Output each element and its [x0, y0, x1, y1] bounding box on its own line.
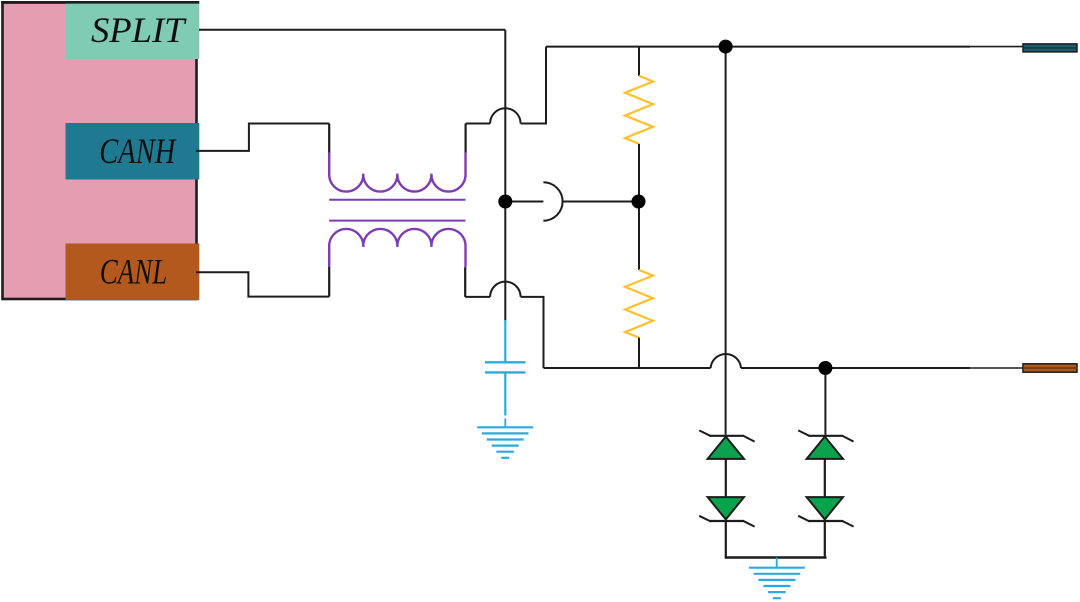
choke L1 core line lower: [329, 220, 465, 222]
wire bottom rail left segment: [544, 367, 711, 369]
block top border over SPLIT box: [1, 1, 199, 4]
junction dot bottom rail: [818, 361, 832, 375]
capacitor C1 plates: [485, 362, 526, 372]
junction dot top rail: [719, 40, 733, 54]
resistor R2 top lead: [638, 202, 640, 270]
choke L1 upper winding: [329, 153, 465, 192]
TVS D4 cathode bar with ticks: [809, 520, 843, 522]
wire hop CANL over SPLIT: [490, 282, 520, 297]
choke L1 upper-right black lead: [465, 124, 467, 153]
capacitor C1 bottom lead: [504, 374, 506, 416]
TVS D1 cathode bar with ticks: [710, 435, 744, 437]
wire CANH right of choke: [466, 123, 491, 125]
wire node arc to resistor junction: [563, 201, 639, 203]
terminal J2 CANL bar: [1023, 364, 1077, 372]
wire CANL right of choke: [465, 296, 490, 298]
wire SPLIT vertical down to capacitor: [504, 30, 506, 321]
wire bottom rail right segment: [741, 367, 970, 369]
ground GND2 under TVS: [749, 568, 805, 599]
wire CANH from pin to choke: [196, 124, 329, 151]
transceiver block U1 body: [3, 3, 197, 300]
pin box CANH: [66, 123, 200, 180]
ground stub TVS: [776, 558, 778, 568]
svg-text:CANH: CANH: [99, 131, 177, 171]
choke L1 lower-left black lead: [328, 267, 330, 297]
wire hop CANH over SPLIT: [490, 108, 520, 123]
TVS D1 triangle: [708, 437, 744, 459]
capacitor C1 top cyan lead: [504, 320, 506, 361]
wire D4 to bottom joiner: [824, 521, 826, 558]
wire bottom rail thin pin: [970, 367, 1023, 369]
svg-text:CANL: CANL: [100, 251, 168, 291]
junction dot resistor mid node: [632, 195, 646, 209]
TVS D2 triangle: [708, 497, 744, 519]
wire CANL to bottom rail: [521, 297, 544, 368]
wire top rail CANH: [546, 46, 970, 48]
wire D3-D4: [824, 459, 826, 497]
wire node SPLIT to resistors: [505, 201, 543, 203]
ground stub capacitor: [504, 418, 506, 427]
resistor R2 bottom lead: [638, 338, 640, 368]
wire hop node arc: [543, 182, 562, 220]
wire D1-D2: [725, 459, 727, 497]
terminal J1 CANH bar: [1023, 44, 1077, 52]
TVS D3 cathode bar with ticks: [809, 435, 843, 437]
junction dot node SPLIT: [498, 195, 512, 209]
resistor R1 zigzag: [625, 76, 653, 144]
choke L1 upper-left black lead: [328, 124, 330, 153]
wire SPLIT horizontal: [199, 29, 505, 31]
resistor R1 bottom lead: [638, 144, 640, 202]
TVS D4 triangle: [807, 497, 843, 519]
wire TVS right column from bottom rail: [824, 368, 826, 435]
pin box SPLIT: [66, 3, 200, 59]
TVS D3 triangle: [807, 437, 843, 459]
resistor R1 top lead: [638, 47, 640, 76]
pin box CANL: [66, 244, 200, 301]
ground GND1 under capacitor: [477, 427, 533, 458]
wire D2 to bottom joiner: [725, 521, 727, 558]
wire CANH to top rail: [521, 47, 546, 124]
choke L1 lower winding: [329, 229, 465, 267]
resistor R2 zigzag: [625, 270, 653, 338]
wire hop bottom rail over TVS column: [711, 354, 741, 368]
wire TVS bottom joiner: [725, 556, 827, 558]
wire top rail thin pin: [970, 46, 1023, 48]
choke L1 core line upper: [329, 199, 465, 201]
wire CANL from pin to choke: [196, 272, 329, 296]
svg-text:SPLIT: SPLIT: [91, 10, 188, 50]
TVS D2 cathode bar with ticks: [710, 520, 744, 522]
choke L1 lower-right black lead: [464, 267, 466, 297]
wire TVS left column from top rail: [725, 47, 727, 435]
